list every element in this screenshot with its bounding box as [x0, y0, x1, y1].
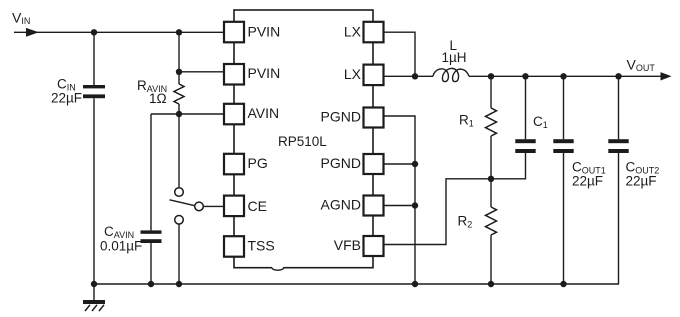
node junction dot rail CAVIN — [148, 281, 154, 287]
svg-text:LX: LX — [344, 24, 362, 40]
op-amp U1 RP510L label — [278, 134, 327, 149]
capacitor COUT1 value label — [572, 160, 606, 189]
node junction dot VOUT/COUT1 — [560, 73, 566, 79]
pin LX 1 — [344, 22, 384, 43]
wire CIN top lead — [93, 32, 95, 85]
svg-text:AGND: AGND — [321, 197, 361, 213]
pin PGND 2 — [321, 154, 384, 174]
svg-text:22µF: 22µF — [572, 173, 603, 188]
pin PGND 1 — [321, 108, 384, 128]
svg-text:1µH: 1µH — [442, 50, 467, 65]
wire COUT1 bottom lead — [563, 153, 565, 284]
wire R2 bottom lead — [490, 235, 492, 284]
capacitor COUT2 value label — [626, 160, 660, 189]
node junction dot VIN/CIN — [91, 29, 97, 35]
capacitor CAVIN value label — [100, 224, 142, 254]
pin CE — [224, 196, 267, 217]
inductor L 1uH — [433, 68, 469, 81]
wire VIN input — [14, 31, 225, 33]
inductor L label — [442, 38, 467, 65]
wire R1 top lead — [490, 76, 492, 108]
node junction dot rail R2 — [488, 281, 494, 287]
node junction dot VOUT/C1 — [522, 73, 528, 79]
pin AVIN — [224, 104, 279, 125]
wire RAVIN top lead — [178, 32, 180, 84]
node junction dot PVIN2 — [176, 69, 182, 75]
node junction dot LX — [412, 73, 418, 79]
svg-text:22µF: 22µF — [626, 173, 657, 188]
wire AGND connection — [384, 205, 416, 207]
wire COUT2 top lead — [618, 76, 620, 139]
svg-text:CE: CE — [248, 198, 267, 214]
node junction dot rail switch — [176, 281, 182, 287]
wire ground rail — [94, 283, 619, 285]
ground — [83, 284, 105, 311]
node junction dot rail GND collector — [412, 281, 418, 287]
wire COUT2 bottom lead — [618, 153, 620, 284]
wire CAVIN top lead — [150, 114, 152, 230]
svg-text:LX: LX — [344, 66, 362, 82]
wire feedback to C1 bottom — [491, 153, 526, 179]
capacitor COUT1 — [553, 139, 573, 153]
wire LX2 to inductor — [384, 75, 434, 77]
svg-text:PG: PG — [248, 155, 268, 171]
node junction dot AVIN — [176, 111, 182, 117]
VOUT arrow — [661, 72, 672, 80]
wire R1 bottom lead — [490, 136, 492, 179]
svg-text:PGND: PGND — [321, 109, 361, 125]
wire PGND2 connection — [384, 163, 416, 165]
svg-text:RP510L: RP510L — [278, 134, 327, 149]
svg-text:1Ω: 1Ω — [149, 91, 167, 106]
node junction dot feedback — [488, 176, 494, 182]
capacitor CAVIN — [141, 230, 162, 243]
svg-text:AVIN: AVIN — [248, 105, 280, 121]
wire RAVIN bottom lead — [178, 104, 180, 188]
resistor R2 — [486, 207, 497, 235]
wire PGND1 to GND collector — [384, 116, 416, 284]
pin VFB — [334, 236, 384, 256]
resistor R1 — [486, 108, 497, 136]
node junction dot VOUT/R1 — [488, 73, 494, 79]
wire switch to CE pin — [203, 205, 224, 207]
wire CAVIN bottom lead — [150, 243, 152, 284]
wire switch bottom lead — [178, 224, 180, 284]
switch CE control — [170, 188, 204, 224]
svg-text:PVIN: PVIN — [248, 65, 281, 81]
capacitor C1 label — [533, 114, 548, 130]
pin PVIN 1 — [224, 22, 280, 43]
svg-text:VOUT: VOUT — [627, 57, 656, 74]
node junction dot rail CIN — [91, 281, 97, 287]
wire VFB feedback — [384, 179, 492, 245]
wire AVIN connection — [151, 113, 225, 115]
wire COUT1 top lead — [563, 76, 565, 139]
svg-text:R2: R2 — [458, 214, 473, 230]
svg-text:PGND: PGND — [321, 155, 361, 171]
resistor R2 top lead — [490, 179, 492, 207]
svg-text:VFB: VFB — [334, 237, 361, 253]
node junction dot PGND2 — [412, 161, 418, 167]
resistor RAVIN label — [137, 78, 167, 106]
wire C1 top lead — [525, 76, 527, 139]
node junction dot VIN/RAVIN — [176, 29, 182, 35]
op-amp U1 RP510L body — [234, 10, 373, 268]
VIN input arrow — [26, 28, 39, 37]
node junction dot AGND — [412, 202, 418, 208]
node VOUT label — [627, 57, 656, 74]
svg-text:R1: R1 — [459, 113, 474, 129]
svg-text:C1: C1 — [533, 114, 548, 130]
svg-text:VIN: VIN — [12, 10, 30, 27]
wire VOUT line — [469, 75, 663, 77]
wire PVIN2 connection — [179, 71, 225, 73]
capacitor C1 — [515, 139, 535, 153]
node junction dot rail COUT1 — [560, 281, 566, 287]
node junction dot VOUT/COUT2 — [615, 73, 621, 79]
capacitor COUT2 — [608, 139, 628, 153]
svg-text:22µF: 22µF — [51, 91, 82, 106]
svg-text:TSS: TSS — [248, 237, 275, 253]
capacitor CIN — [83, 85, 105, 98]
node VIN label — [12, 10, 30, 27]
pin PVIN 2 — [224, 64, 280, 85]
pin AGND — [321, 196, 384, 216]
pin LX 2 — [344, 65, 384, 86]
capacitor CIN value label — [51, 77, 82, 106]
resistor R1 label — [459, 113, 474, 129]
svg-text:PVIN: PVIN — [248, 24, 281, 40]
pin PG — [224, 154, 268, 175]
svg-text:0.01µF: 0.01µF — [100, 239, 142, 254]
pin TSS — [224, 236, 275, 257]
resistor R2 label — [458, 214, 473, 230]
wire CIN bottom lead — [93, 98, 95, 284]
resistor RAVIN — [174, 84, 184, 104]
wire LX1 to LX collector — [384, 32, 416, 76]
